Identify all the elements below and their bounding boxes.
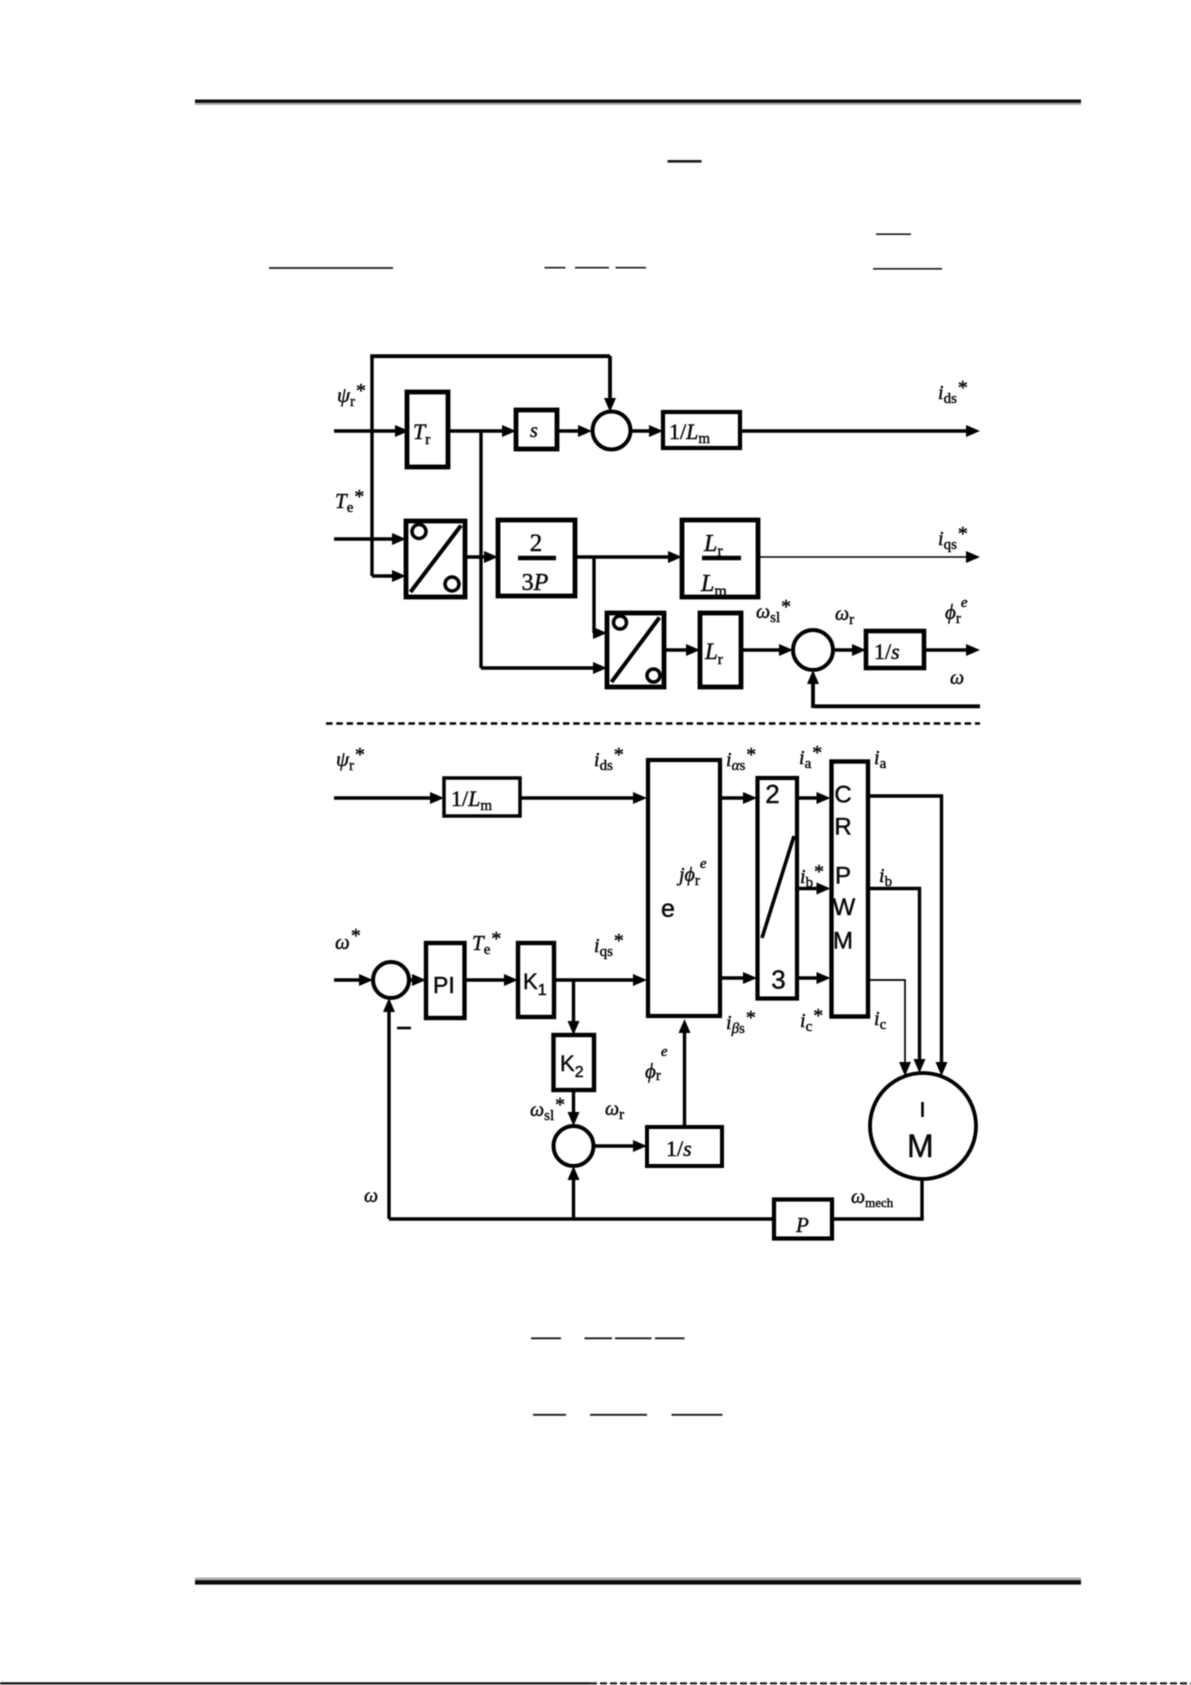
svg-text:Te*: Te* — [335, 486, 363, 516]
svg-text:1/s: 1/s — [874, 639, 900, 664]
wire K1 to rotator — [554, 978, 635, 982]
wire 2to3 to CRPWM mid — [796, 887, 819, 891]
block Lr — [700, 613, 741, 687]
wire 1/Lm to ejphi block — [520, 796, 635, 800]
block Lr/Lm — [682, 520, 758, 600]
wire ib to motor — [868, 889, 920, 1062]
wire rotator to 2to3 top — [721, 796, 745, 800]
wire rotator to 2to3 bottom — [721, 976, 745, 980]
block PI — [426, 943, 465, 1018]
svg-text:ωsl*: ωsl* — [530, 1094, 564, 1124]
block P — [774, 1200, 832, 1239]
svg-text:ωsl*: ωsl* — [756, 596, 790, 626]
wire divider1 to 2/3P — [465, 555, 486, 559]
svg-text:ϕre: ϕre — [945, 595, 968, 627]
wire s to summer — [557, 429, 580, 433]
wire i_qs* output (thin) — [758, 556, 970, 558]
svg-text:P: P — [835, 863, 851, 890]
node junction to divider2 — [594, 557, 595, 633]
svg-text:ic: ic — [874, 1008, 887, 1033]
svg-text:2: 2 — [530, 530, 543, 557]
summing junction lower 1 — [373, 962, 409, 998]
wire Lr to summer2 — [741, 648, 781, 652]
svg-text:PI: PI — [433, 972, 455, 998]
wire omega* input — [334, 978, 361, 982]
svg-text:s: s — [530, 420, 538, 442]
wire motor to feedback — [920, 1179, 923, 1219]
block Tr — [407, 392, 448, 467]
svg-text:ωr: ωr — [605, 1098, 624, 1123]
wire 2/3P to Lr/Lm — [575, 555, 670, 559]
node junction K1 out down — [572, 980, 575, 1023]
svg-text:ωr: ωr — [835, 603, 854, 628]
block 2-to-3 phase — [758, 778, 798, 999]
wire phi output — [924, 648, 968, 652]
wire feedback up to summer1 — [387, 1010, 390, 1219]
svg-text:ψr*: ψr* — [336, 744, 364, 774]
svg-text:2: 2 — [765, 779, 779, 809]
equation overbar (faded text row 1) — [668, 160, 702, 163]
wire summer2 to 1/s — [833, 648, 854, 652]
dashed separator — [326, 722, 980, 725]
svg-text:ia: ia — [874, 747, 887, 772]
wire psi_r* input — [334, 429, 397, 433]
svg-text:W: W — [833, 894, 856, 921]
wire summer to 1/Lm — [631, 429, 651, 433]
equation row bottom 1 fraction bars — [531, 1337, 685, 1339]
block 1/Lm upper — [663, 412, 740, 448]
wire psi_r* lower input — [334, 796, 432, 800]
svg-text:ωmech: ωmech — [851, 1186, 894, 1210]
summing junction 1 (upper) — [593, 412, 631, 450]
wire Te* input — [334, 537, 394, 541]
wire summer3 to 1/s — [594, 1144, 636, 1148]
block divider1 — [406, 521, 465, 597]
svg-text:3: 3 — [771, 965, 785, 995]
wire 2to3 to CRPWM bottom — [796, 976, 819, 980]
block 1/Lm lower — [444, 778, 520, 816]
block 1/s upper — [866, 631, 924, 668]
svg-text:iqs*: iqs* — [594, 930, 623, 960]
block e^jphi rotator — [648, 760, 720, 1016]
wire ia to motor — [868, 796, 942, 1064]
wire Tr to s — [448, 429, 504, 433]
wire omega feedback upper — [813, 704, 980, 708]
wire psi_r to divider1 — [372, 574, 394, 577]
wire feedback top — [370, 354, 610, 358]
block K1 — [518, 943, 554, 1017]
block 2/3P — [498, 520, 575, 596]
equation bar right lower — [873, 268, 942, 270]
svg-text:ia*: ia* — [799, 742, 821, 772]
footer rule — [195, 1578, 1081, 1585]
svg-text:ib: ib — [879, 865, 892, 890]
svg-text:ids*: ids* — [594, 744, 623, 774]
svg-text:C: C — [834, 782, 851, 809]
wire P to left feedback — [389, 1217, 774, 1220]
node junction after Tr vertical — [479, 431, 482, 668]
svg-text:ψr*: ψr* — [337, 380, 365, 410]
svg-text:iβs*: iβs* — [726, 1007, 755, 1037]
summing junction 2 (upper right) — [793, 630, 833, 670]
block divider2 — [607, 613, 664, 687]
block CRPWM inverter — [832, 762, 869, 1017]
equation fraction bars middle (faded text row 2) — [545, 267, 647, 269]
block s — [516, 410, 557, 449]
svg-text:P: P — [795, 1213, 809, 1237]
svg-text:ids*: ids* — [938, 377, 967, 407]
motor M circle — [870, 1073, 976, 1179]
equation row bottom 2 fraction bars — [533, 1414, 723, 1416]
svg-text:M: M — [907, 1128, 934, 1164]
page bottom edge dashed — [590, 1682, 1191, 1684]
node psi_r branch vertical — [370, 355, 373, 577]
wire i_ds* output — [740, 429, 968, 433]
wire divider2 to Lr — [664, 648, 688, 652]
summing junction 3 (lower) — [554, 1126, 594, 1166]
svg-text:iαs*: iαs* — [726, 744, 755, 774]
wire K2 to summer3 — [572, 1090, 575, 1114]
svg-text:1/s: 1/s — [666, 1136, 692, 1161]
block 1/s lower — [647, 1127, 722, 1166]
svg-text:ϕre: ϕre — [645, 1044, 668, 1084]
wire PI to K1 — [465, 978, 507, 982]
svg-text:ω*: ω* — [335, 925, 360, 954]
wire ic to motor (thin) — [868, 980, 905, 1063]
svg-text:e: e — [661, 895, 675, 923]
page bottom edge solid — [0, 1682, 590, 1684]
wire motor to P block — [832, 1217, 924, 1220]
svg-text:R: R — [834, 814, 851, 841]
equation underline left (faded text row 2) — [269, 267, 393, 269]
svg-text:ic*: ic* — [800, 1005, 822, 1035]
block K2 — [554, 1035, 595, 1090]
wire junction to divider2 lower — [481, 666, 595, 669]
wire 2to3 to CRPWM top — [796, 796, 819, 800]
wire summer to PI — [409, 978, 414, 982]
svg-text:ω: ω — [364, 1185, 378, 1207]
svg-text:Te*: Te* — [472, 928, 500, 958]
label minus — [397, 1027, 411, 1030]
svg-text:3P: 3P — [522, 570, 549, 596]
svg-text:M: M — [833, 928, 853, 955]
wire 1/s up to rotator — [683, 1031, 686, 1127]
equation bar right upper — [876, 233, 911, 235]
wire feedback up to summer3 — [572, 1178, 575, 1219]
header rule — [195, 100, 1081, 105]
svg-text:iqs*: iqs* — [938, 523, 967, 553]
svg-text:ω: ω — [950, 667, 964, 689]
